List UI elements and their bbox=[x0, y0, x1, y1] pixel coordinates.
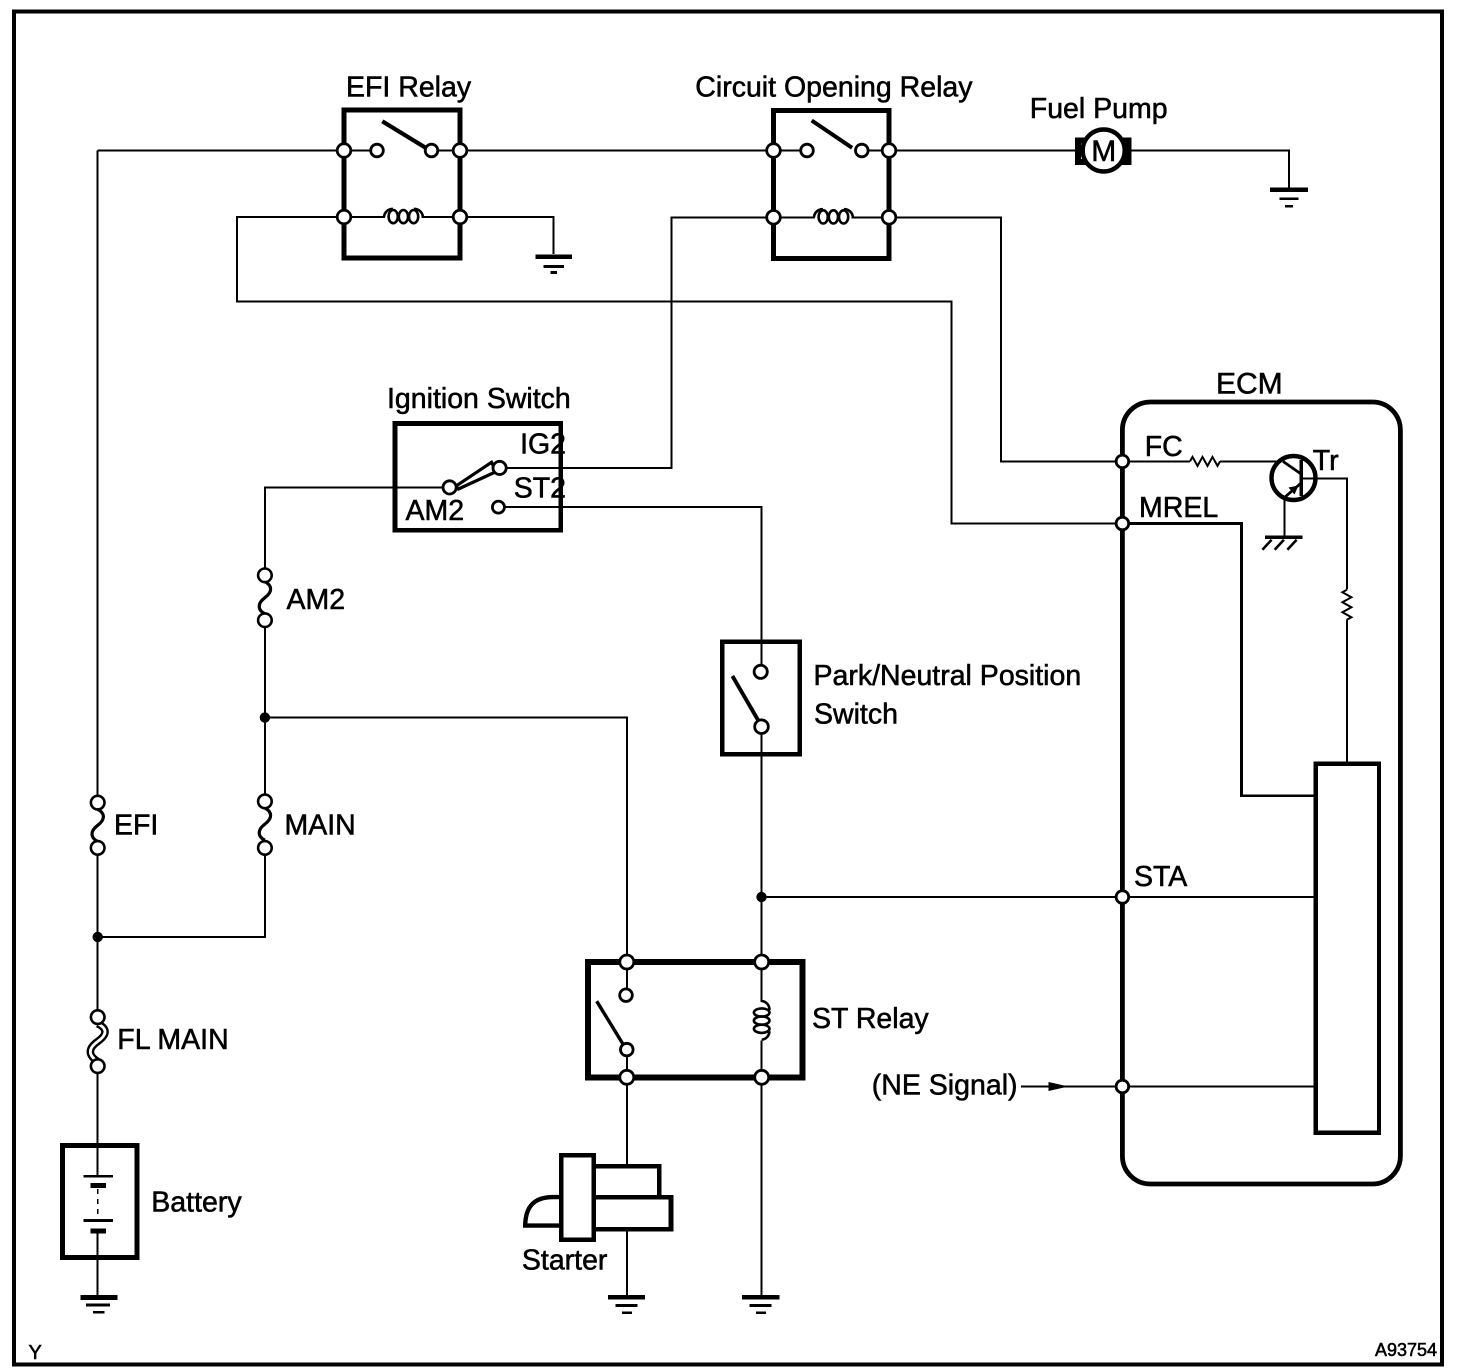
ECM internal block rect bbox=[1316, 764, 1379, 1133]
NE signal arrowhead bbox=[1049, 1082, 1069, 1091]
ST relay terminals bbox=[620, 955, 634, 969]
ignition terminal ST2 bbox=[492, 501, 504, 513]
junction node: STA branch bbox=[756, 892, 766, 902]
ground: fuel pump ground bbox=[1270, 190, 1308, 207]
resistor (collector line, vertical) bbox=[1342, 590, 1351, 620]
EFI relay coil bbox=[384, 209, 423, 223]
relay ST Relay box bbox=[588, 962, 802, 1077]
wire: resistor to transistor base bbox=[1220, 460, 1283, 462]
ST relay fixed contact bbox=[620, 989, 633, 1002]
starter solenoid rect bbox=[561, 1155, 593, 1239]
wire: COR coil left to IG2 terminal bbox=[507, 217, 774, 468]
wire: EFI relay to Circuit Opening Relay top row bbox=[460, 150, 774, 152]
wire: x=97.7 FL MAIN bottom to battery top plate bbox=[97, 1071, 99, 1176]
wire: STA junction to ECM STA pin bbox=[762, 896, 1116, 898]
wire: park/neutral bottom through STA junction to ST relay coil bbox=[761, 731, 763, 955]
EFI relay terminals bbox=[337, 144, 351, 158]
svg-text:ST Relay: ST Relay bbox=[812, 1003, 929, 1035]
motor fuel pump bbox=[1078, 130, 1129, 172]
ignition switch lever bbox=[456, 462, 496, 489]
wire: MREL pin internal path to block bbox=[1129, 524, 1316, 796]
svg-text:A93754: A93754 bbox=[1375, 1340, 1437, 1360]
junction node: EFI/MAIN battery feed bbox=[93, 932, 103, 942]
wire: x=97.7 EFI fuse bottom to FL MAIN top (through junction) bbox=[97, 852, 99, 1012]
relay EFI Relay box bbox=[344, 110, 460, 258]
wire: NE signal arrow line to NE pin bbox=[1021, 1086, 1116, 1088]
EFI relay inner wires bbox=[344, 151, 460, 218]
wire: COR coil right to FC pin bbox=[889, 217, 1116, 461]
wire: junction y=717.6 branch to ST relay switch bbox=[265, 718, 627, 955]
svg-text:EFI Relay: EFI Relay bbox=[346, 71, 472, 103]
wire: ST relay switch bottom to starter bbox=[626, 1077, 628, 1166]
svg-text:IG2: IG2 bbox=[520, 429, 566, 461]
emitter lead with arrow bbox=[1285, 483, 1302, 498]
ECM box bbox=[1122, 402, 1400, 1184]
svg-text:Tr: Tr bbox=[1313, 445, 1339, 477]
ignition terminal IG2 bbox=[493, 461, 506, 474]
ground: battery ground bbox=[80, 1298, 117, 1313]
base external wire bbox=[1301, 479, 1347, 590]
wire: AM2 fuse bottom through junction to MAIN fuse top bbox=[264, 627, 266, 795]
ST relay coil (vertical) bbox=[754, 1001, 770, 1040]
COR coil bbox=[814, 209, 853, 223]
ground: ST relay coil ground bbox=[742, 1297, 779, 1313]
relay Circuit Opening Relay box bbox=[774, 111, 890, 259]
svg-text:AM2: AM2 bbox=[406, 495, 465, 527]
wire: battery bottom to ground bbox=[97, 1231, 99, 1296]
wire: resistor to internal block top bbox=[1346, 620, 1348, 764]
starter end bell arc bbox=[525, 1197, 561, 1226]
svg-text:AM2: AM2 bbox=[287, 584, 346, 616]
resistor (FC line) bbox=[1190, 457, 1220, 466]
svg-text:MAIN: MAIN bbox=[285, 810, 356, 842]
P/N bottom contact bbox=[755, 720, 769, 734]
transistor Tr bbox=[1272, 456, 1347, 590]
EFI relay switch blade bbox=[382, 121, 425, 147]
COR terminals bbox=[767, 144, 781, 158]
switch park/neutral position switch box bbox=[722, 642, 799, 754]
ST relay switch blade bbox=[597, 1001, 623, 1044]
wire: STA pin internal to block bbox=[1129, 896, 1316, 898]
svg-text:Switch: Switch bbox=[814, 698, 898, 730]
svg-text:STA: STA bbox=[1134, 861, 1187, 893]
chassis ground (transistor emitter) bbox=[1262, 537, 1302, 550]
COR inner wires bbox=[774, 151, 890, 218]
starter assembly bbox=[525, 1155, 671, 1239]
wire: AM2 ignition terminal to AM2 fuse bbox=[265, 488, 443, 569]
wire: NE pin internal to block bbox=[1129, 1086, 1316, 1088]
wire: EFI relay coil right to ground bbox=[460, 217, 554, 254]
base bar bbox=[1299, 460, 1302, 496]
svg-text:(NE Signal): (NE Signal) bbox=[872, 1070, 1018, 1102]
svg-text:ST2: ST2 bbox=[514, 473, 566, 505]
EFI relay inner contacts bbox=[371, 144, 384, 157]
wire: fuel pump to right then down to ground bbox=[1130, 151, 1289, 189]
svg-text:Park/Neutral Position: Park/Neutral Position bbox=[814, 660, 1082, 692]
P/N switch blade bbox=[732, 676, 758, 720]
svg-text:Ignition Switch: Ignition Switch bbox=[387, 383, 571, 415]
starter lower rect bbox=[594, 1197, 671, 1229]
fuse AM2 bbox=[258, 569, 272, 628]
emitter to chassis ground bbox=[1284, 500, 1286, 538]
wire: battery feed left vertical x=97.7 (top segment to EFI fuse) bbox=[97, 151, 99, 798]
ground: starter ground bbox=[608, 1297, 645, 1313]
ECM pin NE bbox=[1116, 1080, 1129, 1093]
ECM pin STA bbox=[1116, 891, 1129, 904]
P/N top contact bbox=[754, 665, 767, 678]
ECM pin FC bbox=[1116, 455, 1129, 468]
svg-text:Y: Y bbox=[29, 1342, 42, 1364]
wire: horizontal feed y=150.5 to EFI relay left terminal bbox=[98, 150, 344, 152]
fusible link FL MAIN bbox=[90, 1010, 105, 1073]
svg-text:Battery: Battery bbox=[151, 1187, 242, 1219]
wire: COR to fuel pump motor bbox=[889, 150, 1077, 152]
wire: starter bottom to ground bbox=[626, 1229, 628, 1296]
battery cell plates bbox=[83, 1176, 113, 1231]
wire: EFI relay coil left to MREL pin (long path) bbox=[237, 217, 1116, 524]
svg-text:FC: FC bbox=[1145, 431, 1183, 463]
svg-text:M: M bbox=[1091, 135, 1116, 168]
ST relay inner wires bbox=[627, 962, 762, 1077]
ECM pin MREL bbox=[1116, 517, 1129, 530]
svg-text:Starter: Starter bbox=[522, 1245, 608, 1277]
wire: ST relay coil bottom to ground bbox=[761, 1077, 763, 1296]
COR switch blade bbox=[812, 121, 852, 148]
ground: EFI relay coil ground bbox=[535, 257, 572, 273]
ignition terminal AM2 bbox=[443, 481, 456, 494]
wire: MAIN fuse bottom to battery line bbox=[98, 855, 265, 937]
svg-text:Circuit Opening Relay: Circuit Opening Relay bbox=[695, 72, 973, 104]
svg-text:FL MAIN: FL MAIN bbox=[117, 1024, 228, 1056]
wire: FC pin to resistor bbox=[1129, 460, 1190, 462]
fuse EFI bbox=[91, 796, 105, 855]
svg-text:Fuel Pump: Fuel Pump bbox=[1030, 93, 1168, 125]
svg-text:MREL: MREL bbox=[1139, 492, 1218, 524]
switch ignition switch box bbox=[395, 424, 561, 531]
COR inner contacts bbox=[801, 144, 814, 157]
svg-text:EFI: EFI bbox=[114, 810, 158, 842]
wire: ST2 terminal to park/neutral switch bbox=[504, 507, 761, 667]
junction node: AM2/ST-relay branch bbox=[260, 712, 270, 722]
starter upper rect bbox=[594, 1166, 660, 1197]
battery box bbox=[62, 1146, 137, 1258]
fuse MAIN bbox=[258, 795, 272, 855]
svg-text:ECM: ECM bbox=[1216, 368, 1283, 401]
ST relay moving contact bbox=[621, 1043, 634, 1056]
collector lead bbox=[1283, 461, 1301, 474]
